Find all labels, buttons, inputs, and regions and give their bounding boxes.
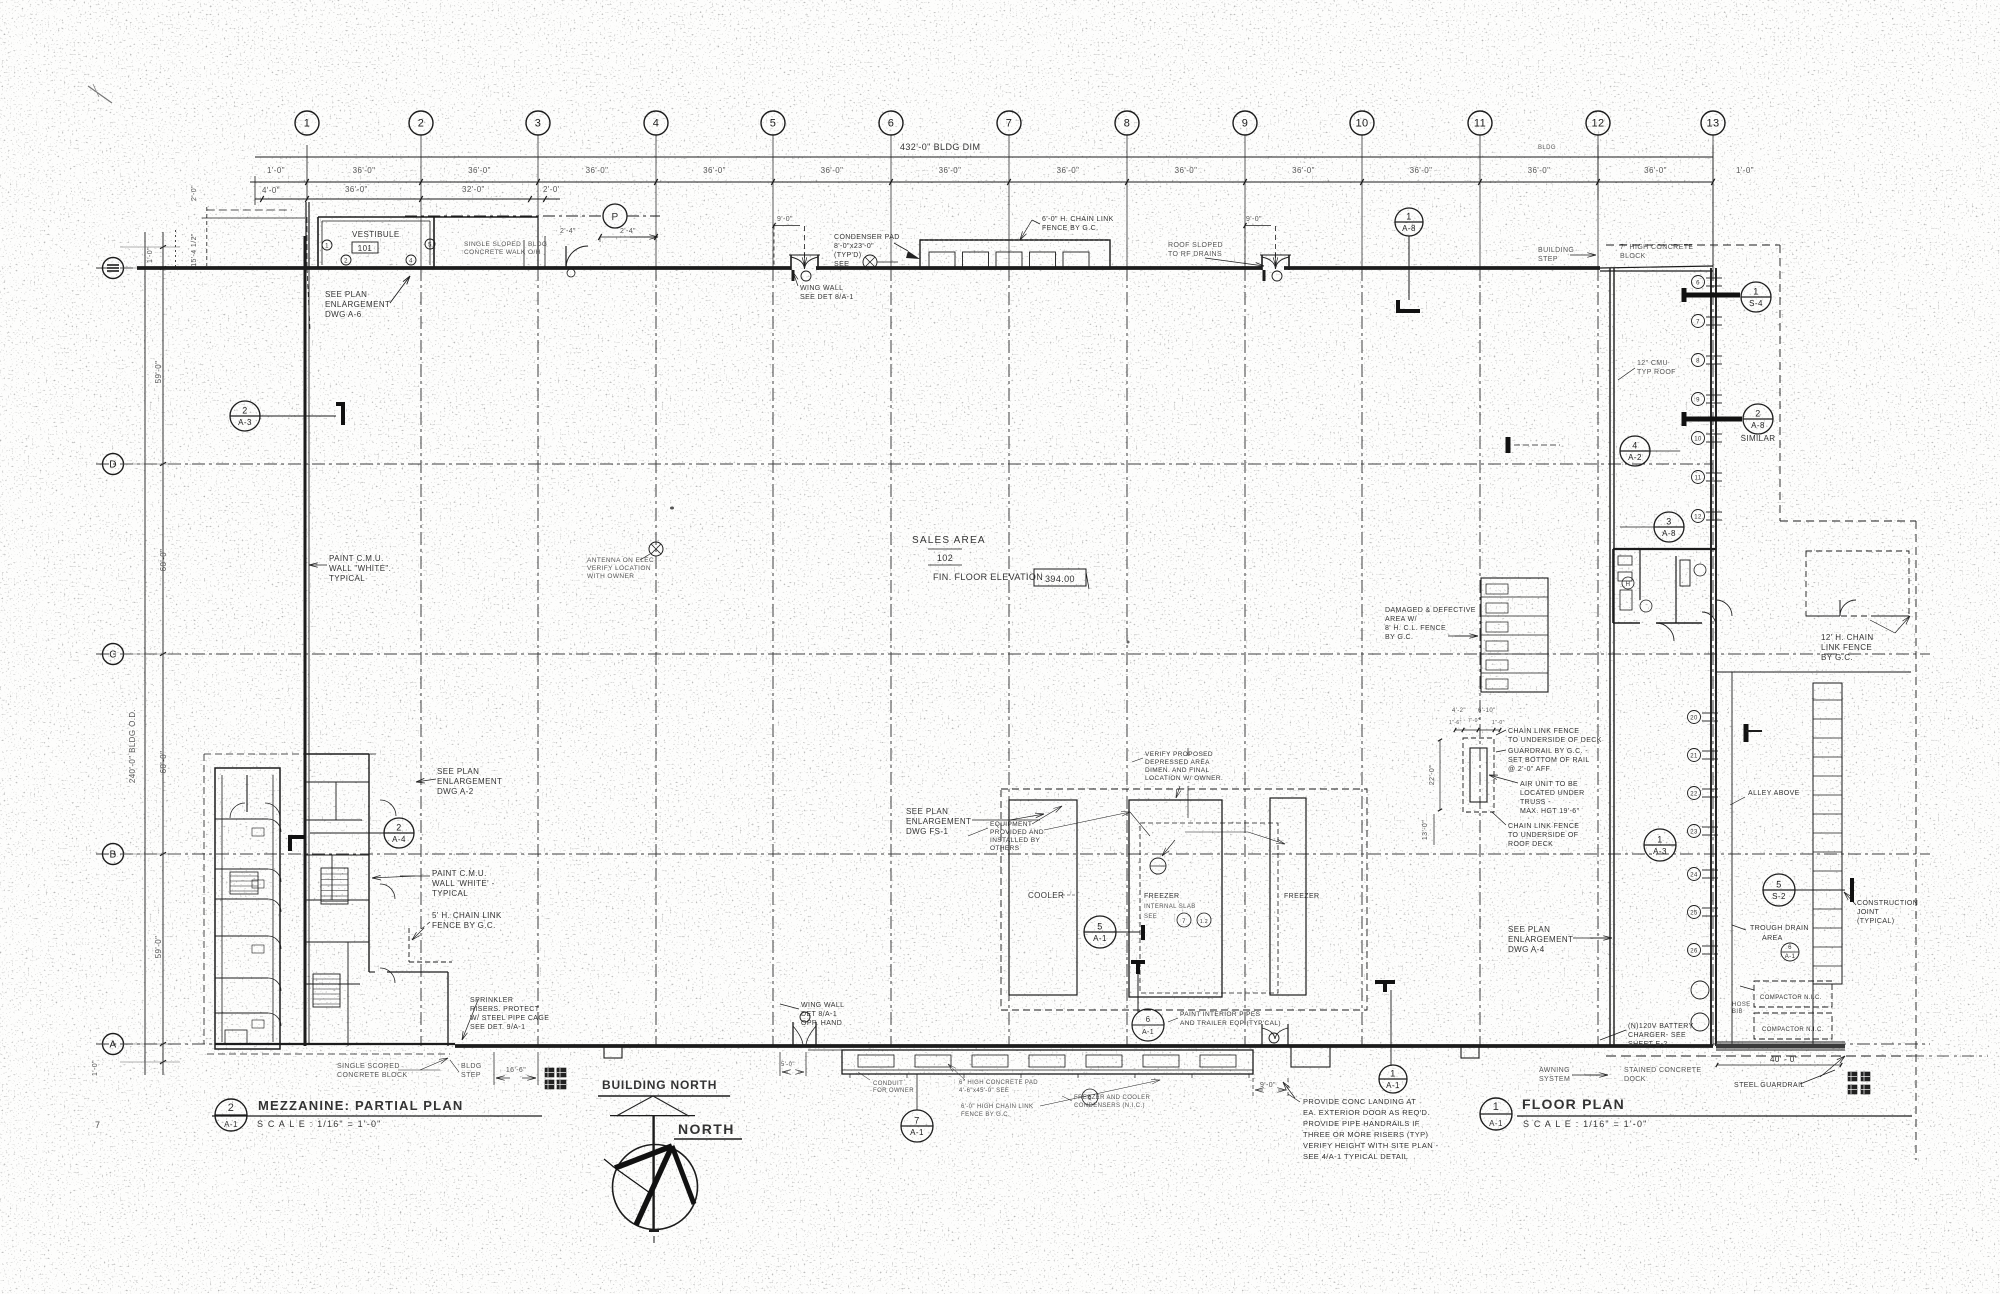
svg-text:20: 20 (1690, 716, 1698, 722)
svg-text:10: 10 (1694, 437, 1702, 443)
svg-text:TYPICAL: TYPICAL (432, 889, 468, 898)
svg-text:TRUSS -: TRUSS - (1520, 799, 1551, 806)
svg-text:A-8: A-8 (1751, 421, 1765, 430)
svg-text:PROVIDE PIPE HANDRAILS IF: PROVIDE PIPE HANDRAILS IF (1303, 1119, 1420, 1128)
svg-text:S C A L E : 1/16" = 1'-0": S C A L E : 1/16" = 1'-0" (1523, 1119, 1648, 1129)
svg-text:THREE OR MORE RISERS (TYP): THREE OR MORE RISERS (TYP) (1303, 1130, 1429, 1139)
svg-text:STEP: STEP (461, 1072, 481, 1079)
svg-text:CONDENSERS (N.I.C.): CONDENSERS (N.I.C.) (1074, 1103, 1145, 1109)
svg-text:WING WALL: WING WALL (801, 1002, 844, 1009)
svg-text:(N)120V BATTERY: (N)120V BATTERY (1628, 1023, 1694, 1030)
svg-text:7: 7 (1006, 118, 1013, 130)
svg-text:CONCRETE BLOCK: CONCRETE BLOCK (337, 1072, 408, 1079)
svg-text:2: 2 (418, 118, 425, 130)
svg-text:36'-0": 36'-0" (1410, 166, 1433, 175)
svg-text:7'-0": 7'-0" (1468, 718, 1480, 724)
svg-text:60'-0": 60'-0" (159, 751, 168, 774)
svg-text:36'-0": 36'-0" (1644, 166, 1667, 175)
svg-text:LOCATED UNDER: LOCATED UNDER (1520, 790, 1585, 797)
svg-text:A-1: A-1 (910, 1128, 924, 1137)
svg-text:B: B (109, 849, 116, 860)
svg-text:12: 12 (1694, 515, 1702, 521)
svg-text:25: 25 (1690, 911, 1698, 917)
svg-text:AREA: AREA (1762, 935, 1783, 942)
svg-text:WALL 'WHITE' -: WALL 'WHITE' - (432, 879, 495, 888)
svg-text:8'-0"x23'-0": 8'-0"x23'-0" (834, 243, 874, 250)
svg-text:6: 6 (1146, 1015, 1151, 1024)
svg-text:SEE PLAN: SEE PLAN (325, 290, 367, 299)
svg-text:TO UNDERSIDE OF: TO UNDERSIDE OF (1508, 832, 1578, 839)
svg-text:PAINT C.M.U.: PAINT C.M.U. (432, 869, 487, 878)
svg-text:36'-0": 36'-0" (703, 166, 726, 175)
svg-text:SALES AREA: SALES AREA (912, 535, 986, 546)
svg-text:PROVIDE CONC LANDING AT: PROVIDE CONC LANDING AT (1303, 1097, 1416, 1106)
svg-text:1.2: 1.2 (1200, 919, 1208, 925)
svg-text:21: 21 (1690, 754, 1698, 760)
svg-text:FENCE BY G.C.: FENCE BY G.C. (1042, 225, 1098, 232)
svg-text:4: 4 (409, 259, 413, 265)
svg-text:RISERS. PROTECT: RISERS. PROTECT (470, 1006, 540, 1013)
svg-text:22: 22 (1690, 792, 1698, 798)
svg-text:4'-2": 4'-2" (1452, 708, 1466, 714)
svg-text:A-1: A-1 (1142, 1029, 1154, 1036)
svg-text:JOINT: JOINT (1857, 909, 1880, 916)
svg-text:1'-0": 1'-0" (1736, 166, 1754, 175)
svg-text:SEE DET 8/A-1: SEE DET 8/A-1 (800, 294, 854, 301)
svg-text:6" HIGH CONCRETE PAD: 6" HIGH CONCRETE PAD (959, 1080, 1038, 1086)
svg-text:DOCK: DOCK (1624, 1076, 1646, 1083)
svg-text:A-3: A-3 (238, 418, 252, 427)
svg-text:6: 6 (1788, 945, 1792, 951)
svg-text:A-3: A-3 (1653, 847, 1667, 856)
svg-text:1: 1 (1657, 835, 1662, 845)
svg-text:5'-0": 5'-0" (781, 1062, 795, 1068)
svg-text:12' H. CHAIN: 12' H. CHAIN (1821, 633, 1874, 642)
svg-text:LINK FENCE: LINK FENCE (1821, 643, 1872, 652)
svg-text:1: 1 (1493, 1101, 1500, 1113)
svg-text:CONSTRUCTION: CONSTRUCTION (1857, 900, 1918, 907)
svg-text:BLDG: BLDG (528, 241, 547, 248)
svg-text:3: 3 (1666, 517, 1671, 527)
svg-text:A-4: A-4 (392, 835, 406, 844)
svg-text:SINGLE SCORED: SINGLE SCORED (337, 1063, 400, 1070)
svg-text:36'-0": 36'-0" (468, 166, 491, 175)
svg-text:WITH OWNER: WITH OWNER (587, 573, 634, 580)
svg-text:7: 7 (95, 1120, 100, 1130)
svg-text:36'-0": 36'-0" (939, 166, 962, 175)
svg-text:INSTALLED BY: INSTALLED BY (990, 837, 1040, 844)
svg-text:AIR UNIT TO BE: AIR UNIT TO BE (1520, 781, 1578, 788)
svg-text:A-1: A-1 (1785, 954, 1796, 960)
svg-text:BY G.C.: BY G.C. (1821, 653, 1853, 662)
svg-text:SHEET E-2: SHEET E-2 (1628, 1041, 1668, 1048)
svg-text:CONCRETE WALK: CONCRETE WALK (464, 249, 526, 256)
svg-text:VESTIBULE: VESTIBULE (352, 230, 400, 239)
svg-text:ALLEY ABOVE: ALLEY ABOVE (1748, 790, 1800, 797)
svg-text:FREEZER AND COOLER: FREEZER AND COOLER (1074, 1095, 1150, 1101)
svg-text:A-8: A-8 (1402, 224, 1416, 233)
svg-text:36'-0": 36'-0" (586, 166, 609, 175)
svg-text:8' H. C.L. FENCE: 8' H. C.L. FENCE (1385, 625, 1446, 632)
svg-text:4'-0": 4'-0" (262, 186, 280, 195)
svg-text:ANTENNA ON ELEC: ANTENNA ON ELEC (587, 557, 654, 564)
svg-text:EA. EXTERIOR DOOR AS REQ'D.: EA. EXTERIOR DOOR AS REQ'D. (1303, 1108, 1430, 1117)
svg-text:1'-0": 1'-0" (92, 1060, 99, 1076)
svg-text:6: 6 (1696, 281, 1700, 287)
svg-text:CHAIN LINK FENCE: CHAIN LINK FENCE (1508, 823, 1579, 830)
svg-text:COMPACTOR N.I.C.: COMPACTOR N.I.C. (1760, 995, 1822, 1001)
svg-text:D: D (109, 459, 117, 470)
svg-text:STEP: STEP (1538, 256, 1558, 263)
svg-text:MAX. HGT 19'-6": MAX. HGT 19'-6" (1520, 808, 1580, 815)
svg-text:VERIFY LOCATION: VERIFY LOCATION (587, 565, 651, 572)
svg-text:8: 8 (1696, 359, 1700, 365)
svg-text:FREEZER: FREEZER (1144, 893, 1179, 900)
svg-text:OTHERS: OTHERS (990, 845, 1020, 852)
svg-text:DWG A-2: DWG A-2 (437, 787, 474, 796)
svg-text:9'-0": 9'-0" (777, 216, 793, 223)
svg-text:NORTH: NORTH (678, 1121, 735, 1137)
svg-text:A-8: A-8 (1662, 529, 1676, 538)
svg-text:DAMAGED & DEFECTIVE: DAMAGED & DEFECTIVE (1385, 607, 1476, 614)
svg-text:36'-0": 36'-0" (1292, 166, 1315, 175)
svg-text:(TYPICAL): (TYPICAL) (1857, 918, 1894, 925)
svg-text:BLDG: BLDG (1538, 145, 1556, 151)
svg-text:EQUIPMENT: EQUIPMENT (990, 821, 1032, 828)
svg-text:11: 11 (1694, 476, 1701, 482)
svg-text:2'-4": 2'-4" (560, 228, 576, 235)
svg-text:2: 2 (242, 406, 247, 416)
svg-text:6'-10": 6'-10" (1478, 708, 1496, 714)
svg-text:36'-0": 36'-0" (1528, 166, 1551, 175)
svg-text:A-1: A-1 (1386, 1081, 1400, 1090)
svg-text:HOSE: HOSE (1732, 1002, 1751, 1008)
svg-text:CONDENSER PAD: CONDENSER PAD (834, 234, 900, 241)
svg-text:11: 11 (1474, 118, 1486, 130)
svg-text:BUILDING: BUILDING (1538, 247, 1574, 254)
svg-text:CONDUIT: CONDUIT (873, 1081, 903, 1087)
svg-text:AWNING: AWNING (1539, 1067, 1570, 1074)
svg-text:STAINED CONCRETE: STAINED CONCRETE (1624, 1067, 1701, 1074)
svg-text:2'-0": 2'-0" (191, 185, 198, 201)
svg-text:1: 1 (1753, 287, 1758, 297)
svg-text:2'-4": 2'-4" (620, 228, 636, 235)
svg-text:DWG A-4: DWG A-4 (1508, 945, 1545, 954)
svg-text:240'-0" BLDG O.D.: 240'-0" BLDG O.D. (128, 709, 137, 783)
svg-text:STEEL GUARDRAIL: STEEL GUARDRAIL (1734, 1082, 1805, 1089)
svg-text:PROVIDED AND: PROVIDED AND (990, 829, 1044, 836)
svg-text:1"-0": 1"-0" (1492, 720, 1505, 726)
svg-text:WING WALL: WING WALL (800, 285, 843, 292)
svg-text:7: 7 (1182, 919, 1186, 925)
svg-text:7" HIGH CONCRETE: 7" HIGH CONCRETE (1620, 244, 1693, 251)
svg-text:DWG FS-1: DWG FS-1 (906, 827, 948, 836)
svg-text:W/ STEEL PIPE CAGE: W/ STEEL PIPE CAGE (470, 1015, 549, 1022)
svg-text:394.00: 394.00 (1045, 574, 1075, 584)
svg-text:36'-0": 36'-0" (1175, 166, 1198, 175)
svg-text:CHARGER- SEE: CHARGER- SEE (1628, 1032, 1686, 1039)
svg-text:TYPICAL: TYPICAL (329, 574, 365, 583)
svg-text:7: 7 (1696, 320, 1700, 326)
svg-text:101: 101 (358, 244, 373, 253)
svg-text:BUILDING NORTH: BUILDING NORTH (602, 1078, 717, 1092)
svg-text:5: 5 (770, 118, 777, 130)
svg-text:(TYP'D): (TYP'D) (834, 252, 861, 259)
svg-text:102: 102 (937, 553, 953, 563)
svg-text:COOLER: COOLER (1028, 891, 1064, 900)
svg-text:VERIFY HEIGHT WITH SITE PLAN -: VERIFY HEIGHT WITH SITE PLAN - (1303, 1141, 1439, 1150)
svg-text:1: 1 (325, 244, 329, 250)
svg-text:16'-6": 16'-6" (506, 1067, 526, 1074)
svg-text:SINGLE SLOPED: SINGLE SLOPED (464, 241, 521, 248)
svg-text:24: 24 (1690, 873, 1698, 879)
svg-text:ENLARGEMENT: ENLARGEMENT (906, 817, 971, 826)
svg-text:15'-4 1/2": 15'-4 1/2" (191, 233, 198, 267)
svg-text:O/H: O/H (528, 249, 541, 256)
svg-text:MEZZANINE: PARTIAL PLAN: MEZZANINE: PARTIAL PLAN (258, 1098, 464, 1113)
svg-text:1: 1 (1406, 212, 1411, 222)
svg-text:BLDG: BLDG (461, 1063, 482, 1070)
svg-text:1"-6": 1"-6" (1449, 720, 1462, 726)
svg-text:36'-0": 36'-0" (821, 166, 844, 175)
svg-text:7: 7 (914, 1116, 919, 1126)
svg-text:SEE: SEE (834, 261, 849, 268)
svg-text:DWG A-6: DWG A-6 (325, 310, 362, 319)
svg-text:SEE: SEE (1144, 914, 1157, 920)
svg-text:40' - 0": 40' - 0" (1770, 1055, 1798, 1064)
svg-text:FIN. FLOOR ELEVATION: FIN. FLOOR ELEVATION (933, 572, 1043, 582)
svg-text:60'-0": 60'-0" (159, 549, 168, 572)
svg-text:1: 1 (304, 118, 311, 130)
svg-text:32'-0": 32'-0" (462, 185, 485, 194)
svg-text:LOCATION W/ OWNER.: LOCATION W/ OWNER. (1145, 775, 1223, 782)
svg-text:12: 12 (1591, 118, 1604, 130)
svg-text:GUARDRAIL BY G.C. -: GUARDRAIL BY G.C. - (1508, 748, 1588, 755)
svg-text:6'-0" H. CHAIN LINK: 6'-0" H. CHAIN LINK (1042, 216, 1114, 223)
svg-text:22'-0": 22'-0" (1429, 765, 1436, 785)
svg-text:@ 2'-0" AFF: @ 2'-0" AFF (1508, 766, 1550, 773)
svg-text:10: 10 (1355, 118, 1368, 130)
svg-text:TROUGH DRAIN: TROUGH DRAIN (1750, 925, 1809, 932)
svg-text:9: 9 (1242, 118, 1249, 130)
svg-text:BIB: BIB (1732, 1009, 1743, 1015)
svg-text:BY G.C.: BY G.C. (1385, 634, 1413, 641)
svg-text:1'-0": 1'-0" (267, 166, 285, 175)
svg-text:59'-0": 59'-0" (154, 936, 163, 959)
svg-text:A: A (109, 1039, 116, 1050)
svg-text:S-4: S-4 (1749, 299, 1763, 308)
svg-text:5' H. CHAIN LINK: 5' H. CHAIN LINK (432, 911, 502, 920)
svg-text:ENLARGEMENT: ENLARGEMENT (325, 300, 390, 309)
svg-text:1: 1 (1390, 1069, 1395, 1079)
svg-text:4: 4 (653, 118, 660, 130)
svg-text:4: 4 (1632, 441, 1637, 451)
svg-text:4'-6"x45'-0" SEE: 4'-6"x45'-0" SEE (959, 1088, 1009, 1094)
svg-text:2: 2 (1755, 409, 1760, 419)
svg-text:AND TRAILER EQP (TYP'CAL): AND TRAILER EQP (TYP'CAL) (1180, 1020, 1281, 1027)
svg-text:9'-0": 9'-0" (1260, 1082, 1276, 1089)
svg-text:12" CMU: 12" CMU (1637, 360, 1668, 367)
svg-text:TYP ROOF: TYP ROOF (1637, 369, 1676, 376)
svg-text:ENLARGEMENT: ENLARGEMENT (1508, 935, 1573, 944)
svg-text:FENCE BY G.C.: FENCE BY G.C. (432, 921, 496, 930)
svg-text:H: H (1626, 582, 1631, 588)
svg-text:AREA W/: AREA W/ (1385, 616, 1417, 623)
svg-text:6: 6 (888, 118, 895, 130)
svg-text:OPP. HAND: OPP. HAND (801, 1020, 842, 1027)
svg-text:DEPRESSED AREA: DEPRESSED AREA (1145, 759, 1210, 766)
svg-text:SET BOTTOM OF RAIL: SET BOTTOM OF RAIL (1508, 757, 1590, 764)
svg-text:S C A L E : 1/16" = 1'-0": S C A L E : 1/16" = 1'-0" (257, 1119, 382, 1129)
svg-text:BLOCK: BLOCK (1620, 253, 1646, 260)
svg-text:DIMEN. AND FINAL: DIMEN. AND FINAL (1145, 767, 1210, 774)
svg-text:VERIFY PROPOSED: VERIFY PROPOSED (1145, 751, 1213, 758)
svg-text:1'-0": 1'-0" (147, 247, 154, 263)
svg-text:5: 5 (1097, 922, 1102, 932)
svg-text:FREEZER: FREEZER (1284, 893, 1319, 900)
svg-text:2'-0': 2'-0' (543, 185, 560, 194)
svg-text:PAINT C.M.U.: PAINT C.M.U. (329, 554, 384, 563)
svg-text:5: 5 (428, 243, 432, 249)
svg-text:13: 13 (1706, 118, 1719, 130)
svg-text:SEE PLAN: SEE PLAN (1508, 925, 1550, 934)
svg-text:ROOF DECK: ROOF DECK (1508, 841, 1553, 848)
svg-text:SEE PLAN: SEE PLAN (437, 767, 479, 776)
svg-text:DET 8/A-1: DET 8/A-1 (801, 1011, 837, 1018)
svg-text:8: 8 (1124, 118, 1131, 130)
svg-text:A-1: A-1 (1489, 1119, 1503, 1128)
svg-text:SEE DET. 9/A-1: SEE DET. 9/A-1 (470, 1024, 525, 1031)
svg-text:SEE PLAN: SEE PLAN (906, 807, 948, 816)
svg-text:23: 23 (1690, 830, 1698, 836)
svg-text:TO RF DRAINS: TO RF DRAINS (1168, 251, 1222, 258)
svg-text:WALL "WHITE".: WALL "WHITE". (329, 564, 391, 573)
svg-text:C: C (109, 649, 117, 660)
svg-text:26: 26 (1690, 949, 1698, 955)
svg-text:ENLARGEMENT: ENLARGEMENT (437, 777, 502, 786)
svg-text:36'-0": 36'-0" (353, 166, 376, 175)
svg-text:2: 2 (344, 259, 348, 265)
svg-text:6'-0" HIGH CHAIN LINK: 6'-0" HIGH CHAIN LINK (961, 1104, 1033, 1110)
svg-text:59'-0": 59'-0" (154, 361, 163, 384)
svg-text:432'-0" BLDG DIM: 432'-0" BLDG DIM (900, 142, 980, 152)
svg-text:SYSTEM: SYSTEM (1539, 1076, 1570, 1083)
svg-text:P: P (611, 212, 618, 223)
svg-text:36'-0": 36'-0" (345, 185, 368, 194)
svg-text:9'-0": 9'-0" (1246, 216, 1262, 223)
svg-text:3: 3 (535, 118, 542, 130)
svg-text:FOR OWNER: FOR OWNER (873, 1088, 914, 1094)
svg-text:A-2: A-2 (1628, 453, 1642, 462)
svg-text:5: 5 (1776, 880, 1781, 890)
svg-text:2: 2 (396, 823, 401, 833)
svg-text:PAINT INTERIOR PIPES: PAINT INTERIOR PIPES (1180, 1011, 1261, 1018)
svg-text:TO UNDERSIDE OF DECK: TO UNDERSIDE OF DECK (1508, 737, 1602, 744)
svg-text:36'-0": 36'-0" (1057, 166, 1080, 175)
svg-text:9: 9 (1696, 398, 1700, 404)
svg-text:S-2: S-2 (1772, 892, 1786, 901)
svg-text:CHAIN LINK FENCE: CHAIN LINK FENCE (1508, 728, 1579, 735)
svg-text:FENCE BY G.C.: FENCE BY G.C. (961, 1112, 1010, 1118)
svg-text:FLOOR PLAN: FLOOR PLAN (1522, 1096, 1625, 1112)
svg-text:SIMILAR: SIMILAR (1741, 434, 1776, 443)
svg-text:A-1: A-1 (1093, 934, 1107, 943)
svg-text:INTERNAL SLAB: INTERNAL SLAB (1144, 904, 1196, 910)
svg-text:SEE 4/A-1 TYPICAL DETAIL: SEE 4/A-1 TYPICAL DETAIL (1303, 1152, 1408, 1161)
svg-text:13'-0": 13'-0" (1422, 820, 1429, 840)
svg-text:A-1: A-1 (224, 1120, 238, 1129)
svg-text:COMPACTOR N.I.C.: COMPACTOR N.I.C. (1762, 1027, 1824, 1033)
svg-text:ROOF SLOPED: ROOF SLOPED (1168, 242, 1223, 249)
svg-text:2: 2 (228, 1102, 235, 1114)
